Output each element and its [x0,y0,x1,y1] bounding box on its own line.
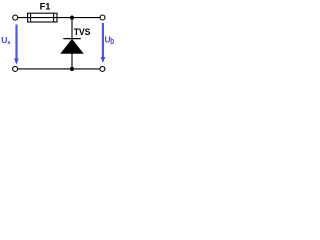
fuse F1 body [28,13,57,22]
svg-text:TVS: TVS [74,27,91,37]
wire TVS branch lower [71,53,73,69]
voltage arrow u_a shaft [15,25,17,60]
fuse F1 right cap line [53,13,55,22]
terminal bottom-right [100,66,105,71]
voltage arrow u_b head [101,57,106,63]
wire TVS branch upper [71,18,73,39]
background [0,0,120,82]
TVS diode cathode bar [63,38,80,40]
junction dot bottom [70,67,74,71]
wire top [18,17,100,19]
wire bottom [18,68,100,70]
svg-text:F1: F1 [40,1,51,11]
svg-text:b: b [110,36,114,46]
voltage arrow u_b shaft [102,23,104,58]
terminal top-left [13,15,18,20]
TVS diode triangle [61,39,83,53]
voltage arrow u_a head [14,59,19,65]
terminal bottom-left [13,66,18,71]
fuse F1 left cap line [30,13,32,22]
terminal top-right [100,15,105,20]
junction dot top [70,16,74,20]
